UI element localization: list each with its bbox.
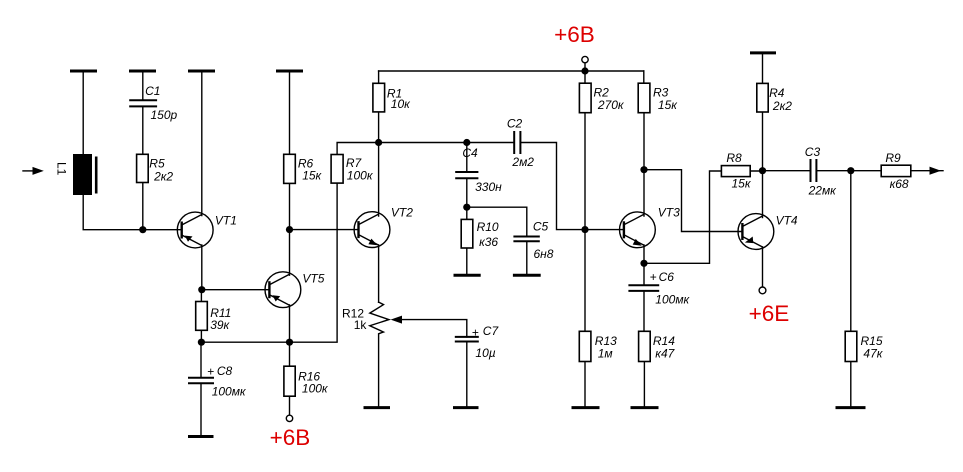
svg-text:15к: 15к: [302, 169, 322, 183]
svg-text:C5: C5: [533, 220, 549, 234]
svg-text:6н8: 6н8: [534, 247, 554, 261]
svg-text:VT5: VT5: [302, 272, 324, 286]
svg-text:+6В: +6В: [554, 22, 595, 47]
svg-text:270к: 270к: [597, 98, 625, 112]
svg-text:R8: R8: [726, 151, 742, 165]
svg-text:+: +: [207, 365, 214, 379]
svg-text:C3: C3: [805, 145, 821, 159]
svg-text:VT2: VT2: [391, 205, 413, 219]
svg-text:VT3: VT3: [658, 205, 680, 219]
svg-text:150p: 150p: [151, 108, 178, 122]
svg-text:C7: C7: [483, 324, 500, 338]
svg-text:100к: 100к: [302, 382, 329, 396]
svg-text:R9: R9: [885, 151, 901, 165]
svg-text:15к: 15к: [658, 98, 678, 112]
svg-text:10к: 10к: [391, 97, 411, 111]
svg-text:+6Е: +6Е: [749, 301, 790, 326]
svg-text:к36: к36: [479, 235, 498, 249]
svg-text:VT4: VT4: [776, 214, 798, 228]
svg-text:100мк: 100мк: [212, 385, 247, 399]
svg-text:+: +: [650, 270, 657, 284]
svg-text:39к: 39к: [210, 318, 230, 332]
svg-text:100мк: 100мк: [655, 293, 690, 307]
svg-text:R4: R4: [769, 86, 785, 100]
svg-text:R10: R10: [477, 220, 499, 234]
svg-text:R5: R5: [149, 157, 165, 171]
svg-text:100к: 100к: [347, 169, 374, 183]
svg-text:2к2: 2к2: [153, 170, 173, 184]
svg-text:L1: L1: [55, 162, 69, 176]
svg-text:15к: 15к: [732, 177, 752, 191]
svg-text:VT1: VT1: [215, 214, 237, 228]
svg-text:к68: к68: [890, 177, 909, 191]
svg-text:+6В: +6В: [270, 425, 311, 450]
svg-text:C6: C6: [659, 270, 675, 284]
svg-text:2м2: 2м2: [511, 155, 534, 169]
svg-text:10µ: 10µ: [475, 346, 495, 360]
svg-text:+: +: [472, 326, 479, 340]
svg-text:C1: C1: [145, 84, 160, 98]
svg-text:1м: 1м: [598, 347, 613, 361]
svg-text:47к: 47к: [863, 347, 883, 361]
svg-text:2к2: 2к2: [772, 99, 792, 113]
svg-text:к47: к47: [655, 347, 675, 361]
svg-text:C2: C2: [507, 117, 523, 131]
svg-text:22мк: 22мк: [808, 184, 838, 198]
svg-text:330н: 330н: [475, 180, 502, 194]
svg-text:C8: C8: [217, 364, 233, 378]
svg-text:C4: C4: [462, 146, 478, 160]
svg-text:1k: 1k: [354, 318, 368, 332]
